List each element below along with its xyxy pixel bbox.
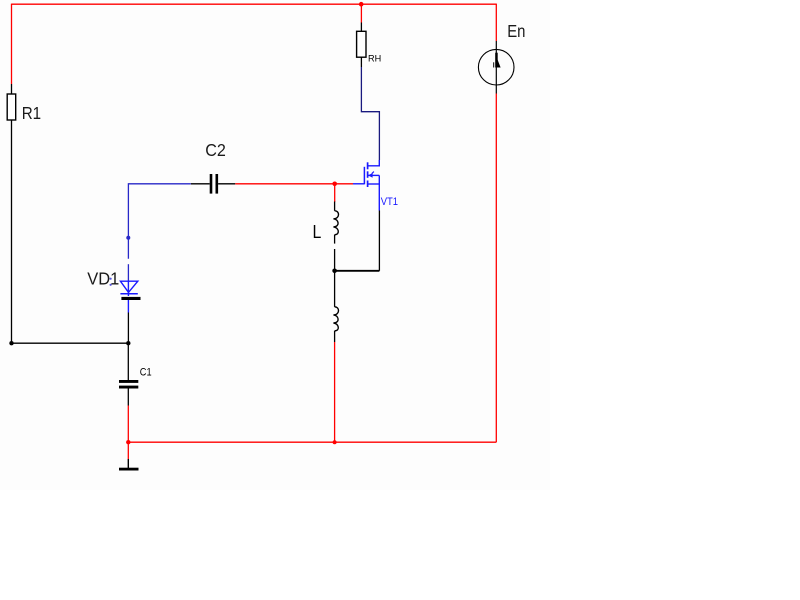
wire: bottom red bus xyxy=(128,441,496,443)
transistor VT1 (MOSFET) xyxy=(353,160,379,211)
wire: R1 bottom black lead down xyxy=(11,120,13,343)
VD1 selection dot upper xyxy=(110,278,112,280)
VD1 blue cathode bar xyxy=(120,293,137,295)
ground xyxy=(127,459,129,468)
inductor L upper coil xyxy=(333,211,338,235)
wire: RH bottom black lead xyxy=(360,57,362,67)
wire: right vertical red above En xyxy=(495,4,497,41)
C2 left plate xyxy=(210,174,213,194)
svg-text:C2: C2 xyxy=(205,140,226,160)
VT1 gate bar xyxy=(363,167,365,185)
wire: RH top black lead xyxy=(360,23,362,32)
VT1 source lead vertical xyxy=(378,175,380,210)
wire: blue wire segment after pin gap xyxy=(127,264,129,281)
node: gate/L junction dot xyxy=(332,182,337,187)
VD1 selection dot lower xyxy=(110,284,112,286)
wire: black vertical to tap (after pin gap) xyxy=(334,249,336,307)
inductor lower coil xyxy=(333,307,338,331)
svg-text:L: L xyxy=(313,222,322,242)
wire: black lead junction to C1 xyxy=(127,343,129,380)
En arrow shaft xyxy=(495,53,498,68)
svg-text:C1: C1 xyxy=(140,367,152,379)
VT1 drain lead xyxy=(368,160,379,166)
canvas background xyxy=(0,0,550,490)
wire: black source lead down to tap xyxy=(378,211,380,271)
VD1 anode lead xyxy=(127,281,129,296)
wire: left vertical red to R1 xyxy=(11,4,13,84)
VT1 channel dash bottom xyxy=(367,181,369,188)
En arrow tick xyxy=(493,62,495,67)
wire: top horizontal red bus xyxy=(12,3,497,5)
wire: black below VD1 to junction xyxy=(127,313,129,344)
VT1 channel dash top xyxy=(367,162,369,169)
node: top junction dot xyxy=(359,2,364,7)
wire: red below C1 to ground xyxy=(127,406,129,460)
wire: black lead through En xyxy=(495,41,497,94)
VT1 body horizontal xyxy=(368,174,379,176)
VT1 source horizontal xyxy=(368,183,379,185)
wire: black lead below lower coil xyxy=(334,331,336,342)
node: bus junction dot left xyxy=(126,440,130,444)
wire: red below lower coil to bus xyxy=(334,342,336,442)
svg-text:RH: RH xyxy=(368,54,381,64)
node: bottom-left corner dot xyxy=(9,341,13,345)
VT1 channel dash middle xyxy=(367,171,369,178)
wire: black lead to upper coil xyxy=(334,202,336,211)
wire: black tap horizontal xyxy=(335,270,380,272)
svg-text:R1: R1 xyxy=(22,103,41,123)
wire: red stub to L top xyxy=(334,184,336,202)
source En circle xyxy=(478,49,514,85)
wire: black lead below upper coil xyxy=(334,235,336,244)
svg-text:VD1: VD1 xyxy=(87,269,119,289)
diode VD1 xyxy=(120,281,137,313)
svg-text:VT1: VT1 xyxy=(381,196,398,208)
C1 bottom plate xyxy=(119,386,138,389)
wire: right vertical red below En xyxy=(495,94,497,443)
resistor R1 xyxy=(7,94,16,120)
wire: C2 right black lead xyxy=(218,183,235,185)
node: bus junction dot middle xyxy=(333,440,337,444)
wire: R1 top black lead xyxy=(11,84,13,94)
VD1 black cathode bar xyxy=(121,297,140,300)
wire: red stub above RH xyxy=(360,4,362,22)
node: junction dot at VD1/C1 xyxy=(126,341,130,345)
resistor RH xyxy=(357,31,366,57)
wire: red gate wire from C2 xyxy=(235,183,353,185)
wire: C2 left black lead xyxy=(191,183,210,185)
VD1 cathode lead xyxy=(127,300,129,313)
node: tap junction dot xyxy=(332,269,337,274)
svg-text:En: En xyxy=(507,21,525,41)
C1 top plate xyxy=(119,380,138,383)
VT1 gate lead xyxy=(353,183,364,185)
wire: navy wire RH to MOSFET drain xyxy=(361,67,379,160)
VT1 arrow tail xyxy=(372,172,374,174)
wire: black below C1 xyxy=(127,389,129,406)
node: blue dot on wire xyxy=(126,236,130,240)
En arrow flare xyxy=(498,60,501,68)
C2 right plate xyxy=(216,174,219,194)
wire: blue wire C2 to VD1 xyxy=(128,184,190,259)
VT1 substrate arrow xyxy=(368,173,373,178)
VD1 triangle xyxy=(120,281,137,292)
capacitor C2 xyxy=(210,174,218,194)
wire: bottom-left horizontal black xyxy=(12,342,129,344)
capacitor C1 xyxy=(119,380,138,389)
